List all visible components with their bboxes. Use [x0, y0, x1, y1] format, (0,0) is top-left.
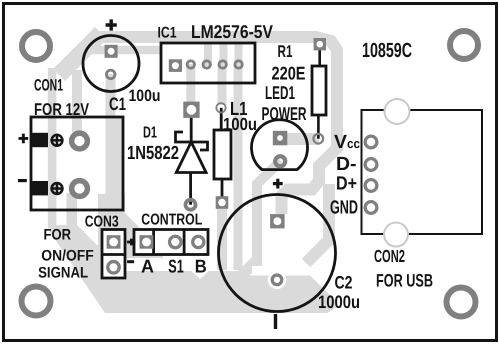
- copper trace layer: [59, 33, 337, 270]
- mounting hole bottom-right: [447, 288, 476, 317]
- wire left vertical bar 2 upper: [72, 70, 82, 132]
- resistor R1 body: [312, 66, 326, 115]
- wire diagonal behind CONTROL: [125, 213, 163, 258]
- pad C1 + square: [105, 45, 118, 58]
- svg-text:C1: C1: [109, 94, 126, 114]
- LED1 outline: [252, 120, 308, 170]
- svg-text:D1: D1: [143, 125, 157, 142]
- svg-text:POWER: POWER: [262, 103, 307, 124]
- wire fillet at C2 trace join: [235, 257, 252, 274]
- pad CON2 Vcc: [365, 136, 377, 148]
- svg-text:CONTROL: CONTROL: [141, 212, 202, 229]
- wire IC1 pin4 to L1: [218, 64, 227, 105]
- C1 plus marker: [106, 19, 117, 30]
- pad L1 bottom square: [216, 196, 229, 209]
- wire left vertical bar 2 lower: [67, 193, 78, 228]
- wire LED1 cathode to C2: [257, 161, 281, 266]
- pad CON2 D+: [365, 180, 377, 192]
- svg-text:CON1: CON1: [34, 77, 63, 95]
- wire IC1 pin2 to D1: [186, 64, 195, 103]
- C2 plus marker: [273, 179, 283, 189]
- svg-text:FOR 12V: FOR 12V: [34, 100, 90, 119]
- wire LED1 anode to R1 bottom: [280, 133, 319, 145]
- pad CONTROL pin3: [193, 236, 204, 247]
- wire elbow lower band to bar2: [68, 52, 84, 68]
- pad R1 top square: [314, 38, 326, 50]
- R1 lead bottom: [317, 115, 320, 139]
- svg-text:CON3: CON3: [85, 213, 119, 230]
- diode D1 lead top: [190, 110, 193, 142]
- L1 lead bottom: [221, 179, 224, 203]
- pad IC1 pin3: [203, 61, 210, 68]
- svg-text:CON2: CON2: [374, 246, 405, 266]
- pad CON1 +: [72, 133, 88, 149]
- ground pour bottom: [98, 271, 336, 313]
- pad CONTROL pin2: [170, 236, 182, 248]
- svg-text:D+: D+: [336, 174, 357, 195]
- diode D1 triangle: [176, 142, 206, 173]
- svg-text:ON/OFF: ON/OFF: [41, 247, 94, 264]
- svg-text:C2: C2: [335, 273, 353, 293]
- L1 lead top: [220, 108, 223, 130]
- C2 minus tick: [274, 314, 277, 329]
- wire branch to ground pour: [306, 184, 329, 263]
- CON3 divider: [102, 253, 125, 256]
- CON1 screw +: [51, 134, 64, 147]
- wire IC1 pin5 down to ground pour: [234, 64, 243, 270]
- svg-text:R1: R1: [278, 42, 293, 61]
- CON2 mount hole top: [385, 99, 410, 124]
- pad D1 bottom: [186, 200, 196, 210]
- svg-text:1N5822: 1N5822: [127, 143, 179, 164]
- mounting hole top-right: [450, 31, 478, 59]
- pad L1 top: [216, 103, 225, 112]
- pad CONTROL pin1 square: [140, 235, 154, 249]
- capacitor C2 outline: [219, 195, 336, 312]
- svg-text:1000u: 1000u: [318, 292, 360, 312]
- wire lower band C1+ to IC1 pins 1-2: [78, 46, 161, 55]
- CON1 plus marker: [19, 134, 29, 144]
- clearance around C2 negative pad: [268, 271, 287, 290]
- pour notch below B label: [190, 270, 210, 279]
- CON1 wire entry +: [31, 133, 48, 147]
- wire IC1 pin5 stub: [235, 42, 243, 66]
- connector CON1 box: [31, 117, 123, 210]
- connector CON2 box: [362, 110, 483, 234]
- connector CONTROL box: [134, 230, 208, 255]
- mounting hole top-left: [22, 32, 50, 60]
- svg-text:LED1: LED1: [265, 82, 295, 103]
- pad CON3 pin2: [108, 262, 120, 274]
- pad IC1 pin2: [187, 61, 194, 68]
- pad CON2 D-: [365, 159, 377, 171]
- svg-text:IC1: IC1: [158, 25, 177, 42]
- pad IC1 pin5: [235, 61, 242, 68]
- CON1 minus marker: [18, 179, 27, 182]
- svg-text:220E: 220E: [272, 63, 306, 84]
- pad IC1 pin4: [219, 61, 226, 68]
- R1 lead top: [318, 44, 321, 66]
- svg-text:100u: 100u: [129, 87, 161, 105]
- wire C1- down to pour: [106, 74, 116, 200]
- wire main top band to R1 and down right side: [93, 37, 337, 214]
- wire left vertical bar 1: [48, 68, 57, 228]
- IC U1 box: [161, 43, 255, 83]
- wire L1 bottom to pour: [217, 202, 227, 270]
- pad LED1 anode square: [273, 131, 288, 146]
- pad CON1 -: [72, 181, 88, 197]
- diode D1 lead bottom: [189, 173, 192, 205]
- pad C2 + square: [270, 214, 285, 228]
- pad IC1 pin1 square: [169, 59, 182, 72]
- pad C1 - round: [106, 70, 115, 79]
- CON3 minus marker: [127, 260, 134, 263]
- pad C2 - round: [272, 275, 282, 285]
- wire elbow from top band down-left: [59, 33, 101, 75]
- svg-text:cc: cc: [347, 136, 360, 151]
- svg-text:SIGNAL: SIGNAL: [38, 265, 88, 282]
- svg-text:B: B: [195, 256, 207, 277]
- pad D1 top square: [183, 102, 199, 118]
- svg-text:S1: S1: [168, 256, 184, 277]
- pad CON3 pin1 square: [107, 235, 121, 249]
- pad R1 bottom: [313, 134, 323, 144]
- wire IC1 pin3 stub: [204, 42, 212, 66]
- svg-text:D-: D-: [336, 154, 357, 175]
- svg-text:10859C: 10859C: [362, 39, 412, 62]
- svg-text:GND: GND: [330, 198, 358, 219]
- svg-text:A: A: [141, 256, 154, 277]
- CON1 screw -: [51, 182, 64, 195]
- pads: [72, 38, 377, 285]
- wire IC1 pin4 stub: [220, 42, 228, 66]
- svg-text:FOR: FOR: [44, 227, 72, 244]
- CON2 mount hole bottom: [384, 223, 408, 247]
- svg-text:V: V: [334, 132, 347, 153]
- wire wide bar C1- behind CON3: [98, 194, 125, 270]
- diode D1 cathode bar (schottky): [176, 132, 208, 150]
- pad LED1 cathode: [275, 156, 285, 166]
- pad CON2 GND: [365, 202, 377, 214]
- svg-text:100u: 100u: [223, 114, 257, 134]
- CONTROL divider 2: [183, 230, 186, 255]
- wire C1- widening inside CON1 box: [106, 117, 123, 210]
- CON3 plus marker: [127, 239, 135, 246]
- wire diagonal swath to pour: [50, 225, 131, 313]
- connector CON3 box: [102, 230, 125, 279]
- mounting hole bottom-left: [22, 287, 51, 316]
- svg-text:FOR USB: FOR USB: [376, 271, 433, 291]
- svg-text:LM2576-5V: LM2576-5V: [191, 21, 274, 42]
- capacitor C1 outline: [83, 36, 139, 92]
- CONTROL divider 1: [152, 230, 155, 255]
- inductor L1 body: [214, 130, 231, 179]
- CON1 wire entry -: [31, 181, 48, 195]
